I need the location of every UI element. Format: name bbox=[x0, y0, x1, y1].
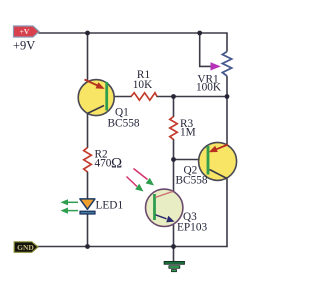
svg-text:10K: 10K bbox=[133, 79, 153, 91]
svg-text:100K: 100K bbox=[196, 82, 222, 94]
svg-text:BC558: BC558 bbox=[176, 175, 208, 187]
svg-text:+9V: +9V bbox=[13, 38, 35, 52]
svg-text:1M: 1M bbox=[180, 127, 196, 139]
svg-text:470: 470 bbox=[95, 158, 112, 170]
svg-text:EP103: EP103 bbox=[177, 222, 207, 234]
svg-text:BC558: BC558 bbox=[108, 118, 140, 130]
svg-text:Ω: Ω bbox=[111, 156, 122, 172]
svg-text:LED1: LED1 bbox=[96, 200, 124, 212]
svg-text:GND: GND bbox=[17, 243, 34, 252]
svg-text:+V: +V bbox=[20, 27, 30, 36]
